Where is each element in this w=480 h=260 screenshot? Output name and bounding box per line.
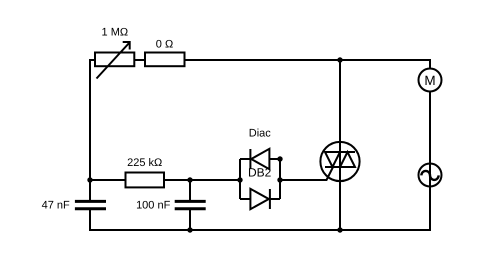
svg-text:100 nF: 100 nF [136,199,171,211]
wire bottom rail [89,229,431,231]
junction dot 100nF top [187,177,192,182]
junction dot 100nF bottom [187,227,192,232]
potentiometer 1 MΩ body [95,42,134,79]
junction dot diac left [237,177,242,182]
svg-text:M: M [424,73,435,88]
svg-text:DB2: DB2 [248,166,272,180]
motor M [419,69,442,92]
wire middle rail left [89,179,240,181]
wire gate from diac to triac [280,167,333,181]
resistor 225 kΩ body [126,173,165,188]
junction dot left rail / middle rail [87,177,92,182]
junction dot triac top [337,57,342,62]
svg-text:47 nF: 47 nF [42,199,70,211]
diac DB2 [240,149,280,209]
junction dot diac right [277,177,282,182]
svg-text:225 kΩ: 225 kΩ [127,157,162,169]
triac [320,142,359,181]
junction dot diac top right [277,156,282,161]
junction dot triac bottom [337,227,342,232]
capacitor 100 nF plates [175,201,206,208]
wire triac vertical rail [339,59,341,231]
svg-text:0 Ω: 0 Ω [156,38,173,50]
wire left rail upper [89,59,91,201]
wire right rail [429,59,431,231]
svg-text:1 MΩ: 1 MΩ [102,27,129,39]
wire left rail lower [89,209,91,231]
wire 100nF branch lower [189,209,191,231]
wire top rail [89,59,431,61]
AC source [419,164,442,187]
svg-text:Diac: Diac [249,128,272,140]
resistor 0 Ω body [145,53,185,67]
capacitor 47 nF plates [75,201,106,208]
wire 100nF branch upper [189,179,191,201]
